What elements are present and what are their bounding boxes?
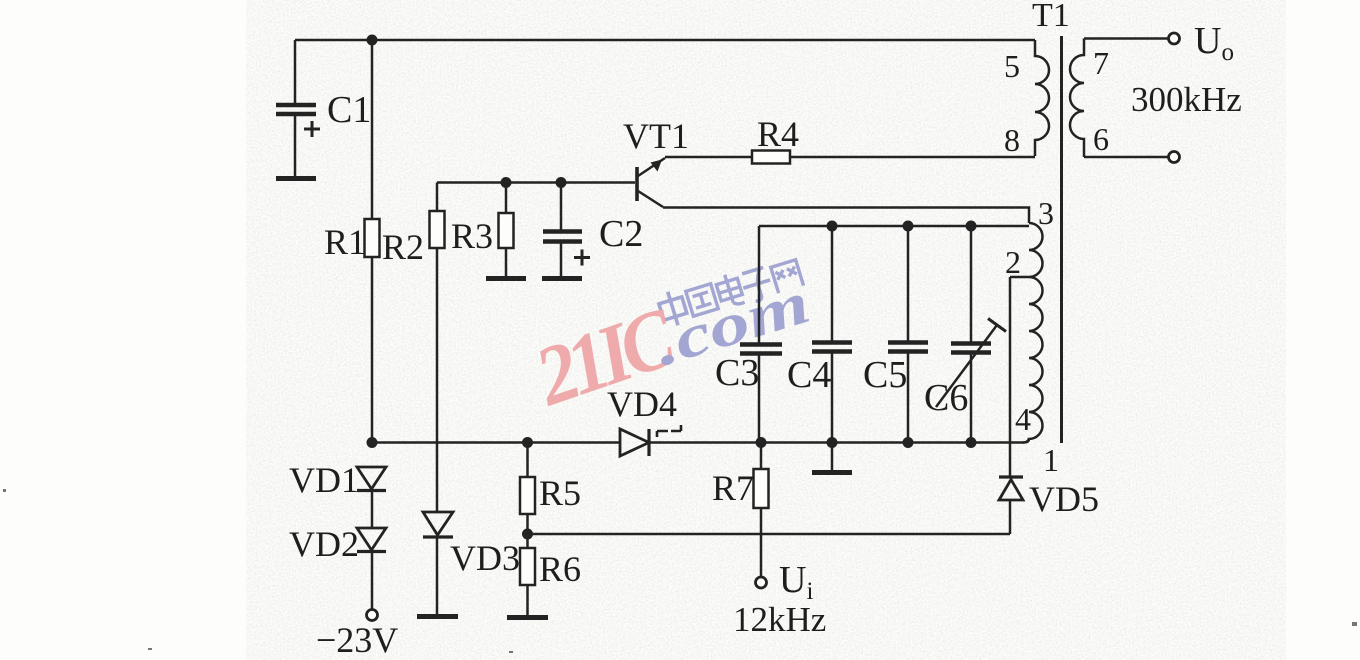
transformer winding 3-2-4-1: [1023, 223, 1043, 443]
node C3 bottom R7: [756, 437, 767, 448]
svg-text:12kHz: 12kHz: [733, 600, 826, 639]
wire tap2 down to VD5: [1009, 277, 1012, 477]
网: [771, 260, 804, 293]
ground C1: [276, 176, 316, 181]
node C4 bottom: [827, 437, 838, 448]
svg-text:C2: C2: [599, 213, 643, 255]
svg-text:R2: R2: [382, 227, 424, 267]
node R5 R6 junction: [522, 529, 533, 540]
transformer T1 primary winding 5-8: [1035, 40, 1049, 156]
terminal Uo top: [1169, 33, 1180, 44]
ground R3: [486, 276, 526, 281]
svg-text:R4: R4: [757, 114, 799, 154]
svg-text:6: 6: [1093, 121, 1109, 157]
svg-text:R6: R6: [539, 549, 581, 589]
terminal Ui: [756, 577, 767, 588]
capacitor C5: [888, 226, 928, 443]
node R1 bottom: [367, 437, 378, 448]
resistor R4: [752, 151, 790, 164]
diode VD4: [620, 425, 681, 456]
diode VD2: [357, 528, 386, 609]
svg-text:−23V: −23V: [316, 620, 398, 660]
svg-text:VD3: VD3: [450, 538, 520, 578]
terminal Uo bottom: [1169, 152, 1180, 163]
svg-text:2: 2: [1005, 244, 1021, 280]
svg-text:R7: R7: [712, 468, 754, 508]
wire capacitor bank top rail: [759, 225, 1029, 228]
svg-text:5: 5: [1004, 48, 1020, 84]
watermark 21IC.com 中国电子网: [524, 260, 817, 424]
ground R6: [507, 615, 548, 620]
svg-text:8: 8: [1004, 122, 1020, 158]
transistor VT1: [637, 158, 665, 207]
resistor R1: [365, 40, 380, 443]
resistor R5: [520, 443, 535, 549]
node R1 top junction: [367, 35, 378, 46]
ground C2: [542, 276, 582, 281]
中: [656, 288, 689, 328]
resistor R2: [430, 183, 445, 513]
node C4 top: [827, 221, 838, 232]
svg-text:R1: R1: [324, 222, 366, 262]
svg-text:C1: C1: [327, 89, 371, 131]
wire R5R6 junction to VD5: [528, 533, 1011, 536]
svg-text:VD2: VD2: [289, 524, 359, 564]
svg-text:1: 1: [1043, 442, 1059, 478]
resistor R3: [499, 183, 514, 277]
wire bottom rail: [372, 441, 620, 444]
wire emitter to transformer pin 3: [663, 208, 1029, 224]
svg-text:C6: C6: [924, 377, 968, 419]
node C2 junction: [556, 177, 567, 188]
电: [714, 272, 744, 309]
svg-text:C4: C4: [787, 354, 831, 396]
wire collector to transformer pin 8: [665, 156, 1035, 159]
svg-text:7: 7: [1093, 45, 1109, 81]
ground C4: [812, 443, 852, 473]
transformer secondary winding 7-6: [1070, 39, 1168, 158]
svg-text:C3: C3: [715, 352, 759, 394]
capacitor C4: [812, 226, 852, 443]
resistor R7: [754, 443, 769, 578]
scan speckles bottom: [3, 489, 1357, 653]
svg-text:VT1: VT1: [623, 116, 689, 156]
svg-text:VD1: VD1: [289, 460, 359, 500]
diode VD5: [999, 477, 1023, 534]
resistor R6: [520, 548, 535, 615]
capacitor C3: [740, 226, 782, 443]
wire tap 2 stub: [1010, 276, 1029, 279]
node C5 bottom: [903, 437, 914, 448]
capacitor C6 trimmer: [936, 226, 1006, 443]
svg-text:C5: C5: [863, 354, 907, 396]
capacitor C1: [276, 40, 320, 176]
svg-text:VD5: VD5: [1029, 479, 1099, 519]
svg-text:4: 4: [1015, 401, 1031, 437]
svg-text:300kHz: 300kHz: [1131, 80, 1242, 119]
国: [686, 284, 718, 316]
svg-text:T1: T1: [1032, 0, 1070, 34]
diode VD1: [357, 467, 386, 528]
svg-text:VD4: VD4: [607, 384, 677, 424]
transformer core: [1060, 36, 1063, 443]
node C6 top: [966, 221, 977, 232]
svg-text:R5: R5: [539, 473, 581, 513]
node R3 junction: [501, 177, 512, 188]
wire top rail: [295, 39, 1035, 42]
diode VD3: [423, 512, 453, 614]
terminal -23V: [367, 610, 378, 621]
capacitor C2: [543, 183, 590, 277]
node C5 top: [903, 221, 914, 232]
svg-text:3: 3: [1038, 195, 1054, 231]
svg-text:R3: R3: [451, 216, 493, 256]
ground VD3: [417, 614, 458, 619]
node R5 top: [522, 437, 533, 448]
wire base rail: [437, 181, 635, 184]
node C6 bottom: [966, 437, 977, 448]
子: [739, 267, 775, 304]
